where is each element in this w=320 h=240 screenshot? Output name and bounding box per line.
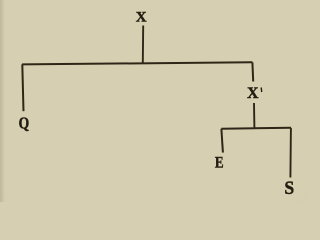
wire X to top bar — [142, 26, 144, 64]
prime mark of X' — [260, 88, 263, 93]
wire left branch down to Q — [22, 64, 23, 111]
svg-text:Q: Q — [19, 114, 30, 133]
wire lower horizontal bar — [221, 128, 291, 129]
svg-text:X: X — [247, 85, 259, 102]
svg-text:E: E — [215, 154, 224, 171]
svg-text:X: X — [136, 9, 147, 25]
wire down to E — [221, 129, 223, 153]
svg-text:S: S — [284, 178, 294, 199]
wire down to S — [289, 128, 292, 178]
wire top horizontal bar — [22, 62, 252, 64]
wire X' to lower bar — [253, 103, 255, 128]
wire right branch down to X' — [251, 62, 254, 81]
